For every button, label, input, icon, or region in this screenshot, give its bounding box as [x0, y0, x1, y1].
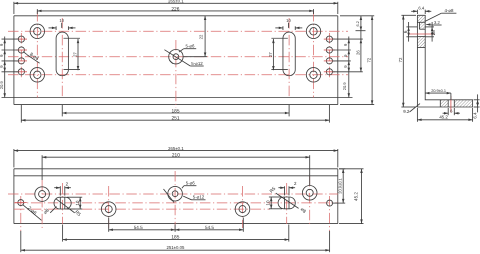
- dim 6.4 top: [411, 6, 431, 13]
- dim 265+-0.1 (front top): [14, 2, 338, 4]
- centerline col cb left: [41, 180, 43, 228]
- svg-text:⌀8: ⌀8: [431, 30, 436, 36]
- svg-text:54.5: 54.5: [134, 225, 143, 230]
- centerline col cb right: [309, 176, 311, 224]
- dim 9x3 left line: [3, 37, 6, 98]
- svg-text:26: 26: [355, 50, 360, 55]
- dim 226: [37, 10, 313, 12]
- svg-text:5-⌀6: 5-⌀6: [186, 181, 196, 186]
- dim 6.4 right ext: [474, 100, 480, 107]
- side view flange hatch edge: [440, 100, 454, 107]
- small hole right R4 (8-d6): [326, 69, 332, 75]
- side view outline: [417, 15, 472, 107]
- slot left diag label 2: [56, 199, 82, 218]
- dim 185 bottom ext: [63, 225, 289, 242]
- dim 2 slot left ext: [60, 186, 65, 195]
- dim 54.5 ext: [109, 218, 244, 232]
- small hole right R3 (8-d6): [326, 58, 332, 64]
- centerline col center: [174, 171, 176, 230]
- svg-text:226: 226: [171, 6, 179, 12]
- side view hatch upper band: [417, 15, 425, 22]
- svg-text:27: 27: [73, 52, 78, 57]
- center hole (5-d12/5-d6): [169, 50, 183, 64]
- center hole bottom view: [168, 186, 183, 201]
- dim 72 right: [371, 16, 373, 105]
- svg-text:6.4: 6.4: [418, 6, 424, 11]
- dim d8 side: [431, 22, 436, 42]
- small hole left L2 (8-d6): [18, 47, 24, 53]
- centerline col left cb: [36, 11, 38, 98]
- dim 20.9+-0.1 side: [425, 89, 451, 94]
- dim 6 flange hole: [443, 108, 460, 114]
- dim 20.9+-0.1 side ext: [450, 93, 452, 100]
- centerline row B: [14, 202, 338, 204]
- svg-text:22: 22: [199, 34, 204, 39]
- side view flange hole centerline: [450, 96, 452, 113]
- label 9.2: [403, 104, 420, 115]
- dim 6.2 ext line: [356, 30, 366, 32]
- dim 6.4 right: [472, 94, 479, 118]
- dim 251 bottom ext: [21, 231, 330, 252]
- svg-text:185: 185: [171, 108, 179, 114]
- cb hole mid-right: [235, 202, 250, 217]
- front view outline (265x72 plate): [14, 16, 338, 105]
- dim 265 bottom ext: [14, 149, 338, 167]
- side view counterbore step: [419, 22, 425, 29]
- svg-text:72: 72: [367, 57, 372, 62]
- dim 265 bottom: [14, 150, 338, 152]
- svg-text:10: 10: [75, 200, 80, 206]
- labels 9 right: [343, 43, 348, 68]
- dim 45.2 side: [417, 119, 472, 121]
- dim 22: [204, 16, 206, 57]
- hole 2-d6 left: [15, 200, 27, 206]
- dim 27 left slot: [77, 39, 79, 70]
- dim 251 front: [21, 119, 329, 121]
- side view counterbore line: [417, 36, 425, 38]
- dim 6.2 and 26 right: [355, 16, 362, 72]
- svg-text:20.9: 20.9: [0, 81, 4, 90]
- label 5-d12 front: [164, 50, 203, 66]
- svg-text:4-⌀8: 4-⌀8: [445, 8, 455, 13]
- centerline col right holes: [328, 33, 330, 80]
- centerline col center hole: [175, 40, 177, 108]
- dim 10 left slot ext: [56, 26, 68, 30]
- svg-text:210: 210: [172, 153, 180, 159]
- svg-text:6: 6: [403, 30, 408, 33]
- dim 10 slot right ext: [269, 197, 282, 209]
- small hole right R2 (8-d6): [326, 47, 332, 53]
- slot left diag label 1: [42, 207, 56, 215]
- dim 54.5 pair: [109, 225, 244, 231]
- dim 45.2 side ext: [417, 108, 472, 122]
- svg-text:72: 72: [398, 57, 403, 62]
- dim 10 right slot: [275, 18, 302, 29]
- small hole left L3 (8-d6): [18, 58, 24, 64]
- dim 6.4 top ext: [417, 10, 425, 14]
- left holes ext lines: [2, 39, 19, 72]
- centerline col left holes: [20, 33, 22, 80]
- dim 210 ext: [42, 155, 310, 185]
- dim 2 slot right ext: [285, 186, 290, 195]
- centerline row mid y=56.7: [8, 56, 348, 58]
- svg-text:5-⌀12: 5-⌀12: [193, 195, 205, 200]
- dim 72 side ext: [401, 15, 416, 107]
- side view hatch boundary: [417, 47, 425, 49]
- slot left (flange): [54, 197, 71, 209]
- dim 22 ext line: [183, 56, 207, 58]
- dim d8 side ext: [425, 27, 434, 37]
- centerline col 2-d6 left: [20, 196, 22, 231]
- label 8-d6 left holes leader: [23, 52, 40, 64]
- dim 226 ext lines: [37, 9, 313, 14]
- center hole diag mark front: [169, 60, 173, 64]
- hole 2-d6 right: [327, 200, 333, 206]
- dim 2 slot left: [54, 181, 71, 189]
- svg-text:20.9±0.1: 20.9±0.1: [431, 89, 446, 93]
- svg-text:6.4: 6.4: [472, 112, 477, 119]
- dim 27 right slot: [272, 39, 274, 70]
- side view flange hatch right: [454, 100, 472, 107]
- centerline col slot left: [62, 183, 64, 224]
- dim 20.9 bottom ext: [333, 169, 345, 203]
- dim 72 side: [402, 15, 404, 107]
- slot left hole walls: [60, 197, 65, 209]
- centerline row2 y=74.8: [8, 74, 348, 76]
- label 2-d6 leader: [23, 205, 42, 221]
- svg-text:10: 10: [59, 18, 64, 23]
- svg-text:265±0.1: 265±0.1: [168, 146, 184, 151]
- slot right hole walls: [285, 197, 290, 209]
- svg-text:45.2: 45.2: [439, 115, 448, 120]
- centerline col left slot: [61, 18, 63, 98]
- dim 6 side ext: [406, 27, 417, 37]
- dim 45.2 bottom ext: [339, 169, 364, 224]
- dim 265+-0.1 ext lines: [14, 2, 338, 14]
- dim 185 front: [62, 112, 289, 114]
- centerline col d12 right: [242, 186, 244, 228]
- svg-text:185: 185: [171, 234, 179, 240]
- small hole left L4 (8-d6): [18, 69, 24, 75]
- svg-text:3.2: 3.2: [434, 20, 440, 25]
- dim 20.9 bottom: [342, 169, 344, 203]
- svg-text:10: 10: [266, 200, 271, 206]
- counterbore hole CB3 (4-d8): [306, 24, 320, 38]
- top view outline (265x45.2): [14, 169, 338, 224]
- label 3.2: [426, 20, 441, 26]
- side view flange hatch left: [440, 100, 448, 107]
- dim 185 front ext: [62, 105, 289, 117]
- label 5-d6 bottom: [182, 181, 197, 189]
- dim 251 front ext: [21, 105, 329, 123]
- counterbore hole CB4 (4-d8): [306, 68, 320, 82]
- svg-text:6.2: 6.2: [356, 21, 360, 26]
- svg-text:20.9: 20.9: [342, 82, 347, 91]
- svg-text:10: 10: [286, 18, 291, 23]
- centerline row A: [8, 193, 338, 195]
- front view flange edge line: [2, 97, 353, 99]
- svg-text:9.2: 9.2: [403, 109, 410, 114]
- right holes ext lines: [333, 39, 363, 72]
- center hole diag mark bottom: [164, 189, 175, 203]
- right slot (10x27 obround): [283, 32, 295, 76]
- svg-text:45.2: 45.2: [354, 192, 359, 201]
- dim 45.2 bottom: [361, 169, 363, 224]
- small hole right R1 (8-d6): [326, 36, 332, 42]
- svg-text:251±0.05: 251±0.05: [166, 245, 185, 250]
- svg-text:265±0.1: 265±0.1: [168, 0, 184, 4]
- cb hole mid-left: [101, 202, 116, 217]
- top view bend line: [14, 175, 338, 177]
- centerline col 2-d6 right: [329, 196, 331, 231]
- svg-text:27: 27: [268, 52, 273, 57]
- centerline col d12 left: [108, 186, 110, 228]
- dim 10 slot left: [79, 197, 81, 209]
- side view step line: [417, 21, 425, 23]
- dim 10 right slot ext: [283, 26, 295, 30]
- svg-text:251: 251: [171, 116, 179, 122]
- side view hatch mid band: [419, 22, 425, 29]
- cb hole top-right: [302, 186, 317, 201]
- svg-text:54.5: 54.5: [205, 225, 214, 230]
- left slot (10x27 obround): [56, 32, 68, 76]
- side view hole centerline: [408, 33, 434, 35]
- dim 27 right slot ext: [271, 38, 287, 69]
- label 5-d12 bottom: [183, 195, 205, 200]
- centerline row1 y=31.3: [8, 30, 348, 32]
- dim 10 left slot: [49, 18, 76, 29]
- centerline col slot right: [286, 183, 288, 224]
- svg-text:5-⌀6: 5-⌀6: [186, 44, 196, 49]
- label 4-d8: [425, 8, 457, 21]
- red crosshairs right holes: [324, 39, 335, 72]
- label 5-d6 front: [179, 44, 196, 52]
- centerline col right cb: [313, 11, 315, 98]
- dim 2 slot right: [278, 181, 297, 189]
- red crosshairs left holes: [16, 39, 27, 72]
- dim 6 side: [403, 22, 410, 42]
- side view hatch lower band: [417, 37, 425, 48]
- slot right diag label 1: [269, 186, 299, 209]
- cb hole bottom-left: [35, 187, 50, 202]
- dim 27 left slot ext: [64, 38, 81, 69]
- dim 10 slot right: [270, 197, 272, 209]
- dim 185 bottom: [63, 239, 289, 241]
- small hole left L1 (8-d6): [18, 36, 24, 42]
- dim 210: [42, 156, 310, 158]
- centerline col right slot: [288, 18, 290, 98]
- centerline row C: [14, 208, 270, 210]
- svg-text:20.9±0.1: 20.9±0.1: [338, 177, 343, 193]
- counterbore hole CB1 (4-d8): [30, 24, 44, 38]
- dim 72 ext lines: [340, 16, 374, 105]
- labels 9 left: [0, 43, 4, 68]
- dim 251 bottom: [21, 249, 330, 251]
- dim 6 flange hole ext: [448, 108, 454, 115]
- svg-text:5-⌀12: 5-⌀12: [191, 61, 203, 66]
- slot right (flange): [278, 197, 295, 209]
- counterbore hole CB2 (4-d8): [30, 68, 44, 82]
- dim 10 slot left ext: [67, 197, 82, 209]
- dim 9x3 right line: [348, 37, 351, 98]
